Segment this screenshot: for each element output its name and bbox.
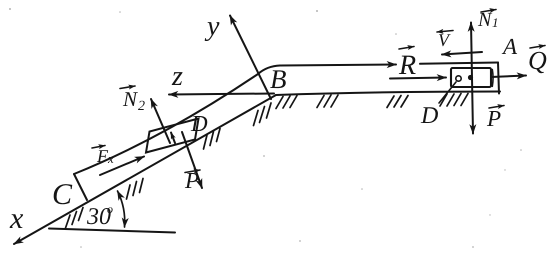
wire rod top edge after R label to right end bbox=[420, 63, 498, 64]
vector Fx friction arrow on incline bbox=[100, 157, 144, 176]
node axis y arrow at B bbox=[230, 16, 271, 100]
node small circle point D in block A bbox=[456, 76, 461, 81]
wire rod end cap at C bbox=[74, 174, 87, 200]
wire horizontal ground line bbox=[276, 92, 500, 96]
svg-text:P: P bbox=[486, 106, 501, 131]
svg-text:B: B bbox=[270, 64, 287, 94]
svg-text:z: z bbox=[171, 61, 183, 92]
svg-text:N: N bbox=[122, 87, 138, 111]
wire incline surface line (x-axis) bbox=[14, 95, 276, 244]
svg-text:2: 2 bbox=[138, 99, 145, 114]
hatching ground group 2 bbox=[317, 95, 338, 108]
svg-text:N: N bbox=[477, 9, 493, 31]
svg-text:C: C bbox=[52, 178, 73, 211]
svg-text:x: x bbox=[9, 202, 24, 235]
svg-text:D: D bbox=[190, 111, 208, 136]
hatching ground group 4 under block A bbox=[440, 94, 468, 107]
vector overbar of R bbox=[399, 47, 414, 50]
node center dot of block A bbox=[468, 75, 473, 80]
vector overbar of Q bbox=[530, 46, 545, 49]
vector N1 up and P down vertical line through block A bbox=[471, 23, 473, 134]
wire 30 degree angle double arrow bbox=[118, 191, 125, 227]
hatching ground group 3 bbox=[387, 96, 408, 108]
svg-text:D: D bbox=[420, 103, 438, 129]
hatching group upper incline bbox=[204, 129, 221, 150]
hatching group below C bbox=[66, 208, 84, 229]
vector Q arrow bbox=[491, 76, 526, 78]
wire leader line from D label to circle bbox=[439, 82, 456, 103]
block D on incline bbox=[146, 119, 199, 153]
vector overbar of N2 bbox=[120, 86, 135, 89]
vector overbar of Fx bbox=[92, 146, 105, 149]
svg-text:y: y bbox=[204, 11, 220, 42]
small arrow tick inside incline block bbox=[171, 133, 175, 144]
hatching group below B on incline bbox=[254, 103, 272, 126]
svg-text:P: P bbox=[184, 168, 199, 193]
svg-text:1: 1 bbox=[492, 15, 499, 30]
svg-text:R: R bbox=[398, 50, 416, 81]
hatching ground group 1 bbox=[276, 96, 297, 109]
wire baseline horizontal reference bbox=[49, 229, 175, 233]
node axis z arrow at B bbox=[169, 94, 274, 95]
svg-text:o: o bbox=[107, 202, 113, 216]
svg-text:A: A bbox=[501, 34, 518, 59]
hatching group mid incline bbox=[127, 179, 144, 200]
vector overbar of P right bbox=[489, 106, 504, 109]
svg-text:Q: Q bbox=[528, 46, 547, 75]
vector N2 normal arrow on incline block bbox=[151, 99, 170, 143]
svg-text:x: x bbox=[107, 151, 114, 166]
wire rod top edge on incline up to B corner then horizontal to arrow R bbox=[74, 65, 396, 175]
slider block at A bbox=[451, 68, 491, 87]
vector P weight arrow at incline block bbox=[182, 132, 202, 188]
vector V arrow bbox=[442, 52, 482, 55]
vector overbar of V points left bbox=[437, 31, 453, 33]
slider block right edge double stroke bbox=[491, 70, 494, 87]
vector overbar of P left bbox=[185, 170, 200, 173]
vector overbar of N1 bbox=[481, 10, 496, 13]
vector R arrow bbox=[390, 78, 446, 79]
wire rod right end cap bbox=[498, 63, 499, 94]
svg-text:V: V bbox=[438, 30, 451, 50]
